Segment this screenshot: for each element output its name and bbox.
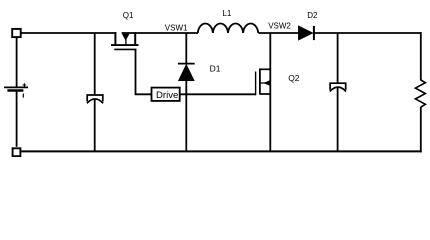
wire top rail VSW1 segment (122, 32, 198, 34)
transistor Q2 source lead (260, 93, 270, 95)
wire right vertical to resistor (420, 32, 422, 80)
svg-text:L1: L1 (222, 9, 231, 18)
inductor L1 (198, 24, 258, 33)
transistor Q1 channel bar (111, 44, 139, 46)
transistor Q1 source lead (114, 32, 116, 45)
terminal input bottom (13, 148, 21, 156)
wire input top square to battery (16, 38, 18, 88)
capacitor C1 bottom wire (94, 99, 96, 151)
diode D1 bottom wire (185, 81, 187, 151)
transistor Q1 drain lead (134, 32, 136, 45)
transistor Q1 gate bar (114, 48, 136, 50)
drive box (152, 88, 180, 101)
transistor Q2 body arrow line (260, 82, 270, 84)
wire resistor bottom to rail (420, 107, 422, 152)
transistor Q1 arrow stem (125, 40, 127, 46)
svg-text:D2: D2 (307, 11, 318, 20)
svg-text:VSW2: VSW2 (268, 22, 291, 31)
wire drive to Q2 gate (180, 93, 256, 95)
battery B1 long plate (4, 86, 28, 88)
svg-text:Drive: Drive (156, 90, 178, 101)
capacitor C2 bottom wire (337, 87, 339, 151)
svg-text:Q2: Q2 (288, 73, 300, 83)
wire battery to bottom square (16, 91, 18, 147)
wire top rail input segment (22, 32, 117, 34)
wire bottom rail (21, 150, 422, 152)
wire Q1 gate down (136, 49, 152, 94)
transistor Q2 drain-source vertical (269, 33, 271, 151)
transistor Q2 gate bar (255, 72, 257, 96)
transistor Q1 body arrow (122, 34, 129, 40)
svg-text:VSW1: VSW1 (165, 23, 188, 32)
capacitor C2 top plate (330, 83, 346, 90)
wire top rail VSW2 segment (258, 32, 298, 34)
wire top rail output segment (314, 32, 421, 34)
terminal input top (12, 29, 21, 37)
svg-text:D1: D1 (210, 64, 221, 74)
transistor Q2 drain lead (260, 68, 270, 70)
diode D2 cathode bar (313, 26, 315, 40)
capacitor C2 top wire (337, 33, 339, 83)
diode D1 triangle (178, 64, 194, 80)
battery plus sign (23, 83, 27, 87)
battery minus tick (22, 94, 24, 98)
capacitor C1 top plate (87, 95, 103, 102)
battery B1 short plate (7, 89, 23, 91)
resistor R load (415, 80, 425, 107)
svg-text:Q1: Q1 (123, 11, 134, 20)
capacitor C2 curved plate (330, 87, 346, 91)
capacitor C1 top wire (94, 33, 96, 95)
diode D1 cathode bar (178, 63, 195, 65)
diode D2 triangle (298, 26, 313, 40)
transistor Q2 body arrow (264, 81, 270, 86)
transistor Q2 channel bar (259, 68, 261, 94)
diode D1 top wire (185, 33, 187, 64)
capacitor C1 curved plate (87, 99, 103, 103)
